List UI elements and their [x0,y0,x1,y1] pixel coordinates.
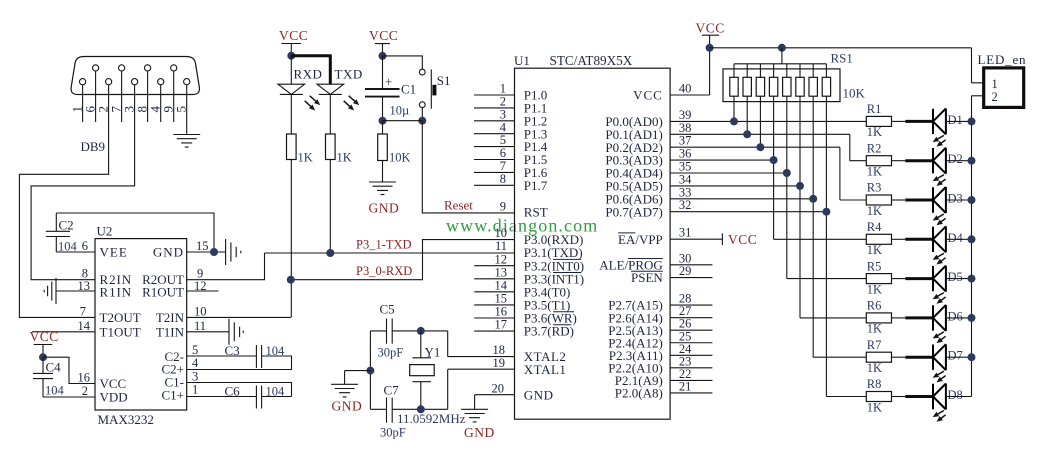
svg-text:11: 11 [194,319,206,333]
svg-text:VEE: VEE [100,245,128,260]
svg-text:P1.7: P1.7 [524,178,548,193]
node bus D1 [968,117,976,125]
wire P0.2 pin 37 to R3 [670,147,866,200]
node TXD LED junction [326,249,334,257]
svg-text:GND: GND [369,201,400,216]
wire VCC to U2 pin 16 [43,357,95,383]
svg-text:1K: 1K [867,282,882,296]
capacitor C6 [225,383,286,408]
svg-text:9: 9 [500,200,506,214]
resistor R4 1K [866,220,905,257]
ground at DB9 pin 5 [173,135,200,148]
LED D3 [905,187,971,225]
wire to crystal ground [345,371,371,385]
LED D6 [905,305,971,343]
svg-text:104: 104 [45,384,65,398]
RS1 element 5 [783,64,791,279]
wire DB9 pin2 to U2 T2OUT [19,85,108,318]
DB9 pin 5 [174,79,190,135]
wire P3_1-TXD line to U1 pin 11 [265,252,515,254]
wire P0.0 pin 39 to R1 [670,120,866,122]
svg-text:39: 39 [679,108,692,122]
svg-text:T2OUT: T2OUT [100,310,141,325]
node bus D5 [968,275,976,283]
DB9 pin 8 [134,65,150,122]
node C1/S1 junction left [379,117,387,125]
DB9 pin 7 [108,65,124,122]
U2 pin numbers [78,239,91,398]
svg-text:8: 8 [500,172,506,186]
svg-text:40: 40 [679,82,692,96]
U1 pins 28-21 stubs [670,305,712,393]
connector LED_en [972,52,1027,107]
capacitor C5 [378,302,404,360]
U1 left pin names [524,88,584,403]
svg-text:1: 1 [992,77,998,91]
svg-text:6: 6 [82,239,88,253]
U1 pins 18-19 stubs [448,357,515,370]
svg-text:1K: 1K [867,243,882,257]
svg-text:XTAL1: XTAL1 [524,362,567,377]
svg-text:10µ: 10µ [390,104,410,118]
wire P0.5 pin 34 [670,185,800,187]
resistor 10K [378,121,411,165]
svg-text:C1: C1 [401,82,416,97]
svg-text:1: 1 [192,383,198,397]
node U2 pin15 junction [210,248,218,256]
svg-text:C4: C4 [46,360,62,375]
svg-text:T2IN: T2IN [156,310,185,325]
svg-text:GND: GND [153,245,184,260]
svg-text:MAX3232: MAX3232 [98,412,154,427]
node crystal gnd tap [366,367,374,375]
DB9 pin 1 [69,79,85,122]
wire U2 C2- pin 5 through C3 [187,355,257,357]
U1 pins 1-8 stubs [474,95,515,185]
wire U2 GND pin 15 stub [187,251,226,253]
svg-text:33: 33 [679,185,692,199]
svg-text:1K: 1K [298,151,313,165]
power VCC left of U2 [30,329,59,357]
wire U2 R1IN pin 13 [56,290,95,292]
svg-text:20: 20 [492,381,505,395]
svg-text:DB9: DB9 [81,139,106,154]
RS1 element 2 [743,64,751,135]
power VCC above C1/S1 [369,28,398,56]
svg-text:D6: D6 [948,309,963,323]
overline marks on pin names [553,233,663,325]
svg-text:30pF: 30pF [380,426,406,440]
node bus D4 [968,235,976,243]
svg-text:C1+: C1+ [161,388,184,403]
wire P0.6 pin 33 [670,198,813,200]
svg-text:21: 21 [679,380,692,394]
wire U2 R2OUT pin 9 up to TXD line [187,253,265,280]
node XTAL1/Y1 junction [417,405,425,413]
LED D1 [905,108,971,146]
RS1 element 7 [809,64,817,357]
svg-text:35: 35 [679,160,692,174]
svg-text:10K: 10K [843,86,866,101]
resistor R2 1K [866,141,905,178]
ground at crystal [331,384,362,413]
svg-text:29: 29 [679,264,692,278]
wire R7 feed [813,356,866,358]
LED D4 [905,226,971,264]
svg-text:38: 38 [679,121,692,135]
LED D8 [905,384,971,422]
svg-text:104: 104 [58,240,78,254]
LED D5 [905,266,971,304]
node bus D3 [968,196,976,204]
svg-text:RS1: RS1 [831,51,853,66]
svg-text:1K: 1K [867,165,882,179]
wire LED cathode bus [971,96,973,397]
resistor R6 1K [866,299,905,336]
svg-text:D3: D3 [948,192,963,206]
ground below 10K [369,161,400,216]
svg-text:11.0592MHz: 11.0592MHz [397,411,466,426]
svg-text:Reset: Reset [444,198,473,213]
svg-text:U2: U2 [97,224,113,239]
wire P0.1 pin 38 to R2 [670,134,866,160]
wire XTAL2 net [370,331,447,357]
ground sideways at U2 R1IN [44,278,56,304]
U1 pin 20 stub [475,395,515,410]
wire P0.3 pin 36 [670,159,774,161]
svg-text:C5: C5 [380,302,395,317]
wire RXD LED to R [290,94,292,134]
RS1 element 4 [769,64,777,240]
wire C3 to U2 C2+ pin 4 [187,356,292,370]
svg-text:S1: S1 [437,73,451,88]
resistor R8 1K [866,377,905,414]
svg-text:3: 3 [500,107,506,121]
svg-text:32: 32 [679,198,692,212]
svg-text:GND: GND [524,387,554,402]
switch S1 [419,69,450,109]
wire VCC to RXD LED [290,56,292,84]
svg-text:14: 14 [78,319,91,333]
U2 left pin texts [100,245,141,405]
node VCC split RXD/TXD [287,52,295,60]
svg-text:1K: 1K [337,151,352,165]
U1 pins 12-17 stubs [474,266,514,331]
capacitor C3 [225,343,286,368]
wire crystal left leg [369,331,371,409]
svg-text:5: 5 [500,133,506,147]
RS1 element 3 [756,64,764,147]
wire RXD chain down to RXD net [290,160,292,318]
wire U2 C1+ pin 1 through C6 [187,396,292,398]
svg-text:D5: D5 [948,270,963,284]
svg-text:36: 36 [679,147,692,161]
svg-text:GND: GND [332,399,363,414]
svg-text:2: 2 [992,90,998,104]
U1 left pin numbers [492,82,508,396]
capacitor C7 [380,383,406,440]
svg-text:P2.0(A8): P2.0(A8) [615,386,663,401]
wire XTAL1 net [370,369,447,409]
wire RS1 common [734,48,826,64]
svg-text:VCC: VCC [279,28,308,43]
wire VCC to TXD branch [291,54,330,84]
svg-text:R3: R3 [867,181,882,195]
node C1/S1 junction right [418,117,426,125]
svg-text:12: 12 [495,252,508,266]
svg-text:13: 13 [495,265,508,279]
U1 pins 30 29 stubs [670,265,712,278]
svg-text:R1: R1 [867,102,882,116]
svg-text:VCC: VCC [696,21,725,36]
node bus taps [730,117,830,215]
svg-text:1K: 1K [867,322,882,336]
svg-text:VCC: VCC [728,232,757,247]
svg-text:D4: D4 [948,231,964,245]
RS1 element 8 [822,64,830,397]
resistor 1K (RXD) [287,134,313,165]
svg-text:GND: GND [464,425,495,440]
node VCC split C1/S1 [379,52,387,60]
svg-text:P3_0-RXD: P3_0-RXD [356,264,412,278]
svg-text:P0.7(AD7): P0.7(AD7) [605,204,662,219]
power VCC at pin 31 [722,232,757,247]
svg-text:7: 7 [500,159,506,173]
svg-text:R6: R6 [867,299,882,313]
svg-text:31: 31 [679,226,692,240]
svg-text:4: 4 [192,356,199,370]
wire U2 R1OUT pin 12 stub [187,290,219,292]
LED D7 [905,344,971,382]
svg-text:TXD: TXD [335,67,363,82]
U2 right pin texts [142,245,184,403]
wire C4 to U2 VDD pin 2 [43,396,95,398]
svg-text:R4: R4 [867,220,882,234]
svg-text:15: 15 [495,292,508,306]
RS1 element 1 [730,64,738,122]
wire VCC rail to LED_en [710,48,984,83]
RS1 element 6 [796,64,804,318]
node VCC/C4 junction [39,353,47,361]
svg-text:RXD: RXD [294,67,323,82]
svg-text:R8: R8 [867,377,882,391]
resistor R3 1K [866,181,905,218]
wire R4 feed [774,238,867,240]
svg-text:U1: U1 [514,53,530,68]
svg-text:2: 2 [500,95,506,109]
svg-text:+: + [385,74,392,89]
resistor network RS1 box [723,69,840,102]
svg-text:1K: 1K [867,204,882,218]
power VCC above RXD/TXD LEDs [279,28,308,56]
DB9 pin 9 [161,65,177,122]
wire S1 bottom to junction [421,108,423,121]
svg-text:15: 15 [196,239,209,253]
node bus D2 [968,157,976,165]
node RXD LED junction [287,276,295,284]
resistor R7 1K [866,338,905,375]
svg-text:5: 5 [192,343,198,357]
svg-text:37: 37 [679,134,692,148]
svg-text:14: 14 [495,278,508,292]
DB9 pin 3 [121,79,137,113]
capacitor C4 [33,357,65,397]
LED D2 [905,148,971,186]
svg-text:R1IN: R1IN [100,285,133,300]
svg-text:1: 1 [500,82,506,96]
svg-text:17: 17 [495,318,508,332]
wire U2 T1OUT pin 14 stub [32,331,95,333]
wire VCC to S1 [383,56,423,69]
svg-text:10: 10 [194,304,207,318]
svg-text:D2: D2 [948,152,963,166]
svg-text:RST: RST [524,205,548,220]
capacitor C2 [46,213,78,254]
svg-text:VDD: VDD [100,390,128,405]
svg-text:T1OUT: T1OUT [100,324,141,339]
op-amp U2 MAX3232 box [95,239,187,410]
wire C2 top loop to U2 GND pin 15 [56,213,214,252]
svg-text:4: 4 [500,120,507,134]
svg-text:R5: R5 [867,259,882,273]
ground sideways at U2 pin 15 [226,239,241,265]
connector DB9 shell [71,57,199,95]
node XTAL2/Y1 junction [417,327,425,335]
wire TXD chain down to TXD net [329,160,331,254]
wire R5 feed [787,278,867,280]
wire DB9 pin3 to U2 R2IN [31,85,135,280]
node VCC rail to RS1 [778,44,786,52]
svg-text:19: 19 [493,356,506,370]
LED RXD [278,84,320,110]
svg-text:R1OUT: R1OUT [142,285,184,300]
svg-text:1K: 1K [867,400,882,414]
ground sideways at U2 T1IN [229,319,243,345]
U1 right pin names [599,88,663,401]
wire junction bar [383,120,423,122]
resistor R5 1K [866,259,905,296]
resistor 1K (TXD) [326,134,352,165]
svg-text:34: 34 [679,172,692,186]
svg-text:5: 5 [174,106,189,113]
svg-text:STC/AT89X5X: STC/AT89X5X [550,53,633,68]
wire Reset net to U1 RST [422,121,514,213]
svg-text:16: 16 [78,371,91,385]
node bus D7 [968,353,976,361]
svg-text:6: 6 [500,146,506,160]
svg-text:10K: 10K [389,151,411,165]
svg-text:2: 2 [82,384,88,398]
LED TXD [317,84,359,110]
svg-text:LED_en: LED_en [978,52,1027,67]
DB9 pin 4 [148,79,164,122]
svg-text:16: 16 [495,305,508,319]
U1 right pin numbers [679,82,692,394]
wire U1 pin 40 to VCC [670,48,710,95]
node VCC rail at pin40 [706,44,714,52]
svg-text:VCC: VCC [30,329,59,344]
wire P3_0-RXD line to U1 pin 10 [291,240,515,280]
wire R8 feed [826,396,866,398]
ground at U1 pin 20 [461,409,495,440]
svg-text:D7: D7 [948,349,963,363]
svg-text:11: 11 [495,239,507,253]
wire U2 VEE pin 6 [56,251,95,253]
svg-text:1K: 1K [867,125,882,139]
svg-text:VCC: VCC [369,28,398,43]
svg-text:PSEN: PSEN [631,270,663,285]
svg-text:D1: D1 [948,113,963,127]
svg-text:R7: R7 [867,338,882,352]
svg-text:10: 10 [495,226,508,240]
svg-text:R2: R2 [867,141,882,155]
power VCC top right [696,21,725,48]
DB9 pin 6 [82,65,98,122]
wire U2 T1IN pin 11 stub [187,331,229,333]
svg-text:P3.7(RD): P3.7(RD) [524,324,574,339]
svg-text:3: 3 [192,370,198,384]
svg-text:30pF: 30pF [378,346,404,360]
capacitor C1 10u [365,56,416,121]
svg-text:7: 7 [80,304,86,318]
svg-text:EA/VPP: EA/VPP [618,232,663,247]
wire U2 C1- pin 3 [187,383,292,397]
wire U2 T2IN pin 10 to RXD chain [187,316,291,318]
node bus D6 [968,314,976,322]
crystal Y1 [410,331,441,409]
svg-text:D8: D8 [948,388,963,402]
MCU U1 box [515,68,671,419]
svg-text:C7: C7 [384,383,400,398]
DB9 pin 2 [95,79,111,113]
svg-text:C3: C3 [225,343,240,358]
svg-text:P3_1-TXD: P3_1-TXD [356,238,412,252]
resistor R1 1K [866,102,905,139]
wire P0.4 pin 35 [670,172,787,174]
svg-text:VCC: VCC [633,88,663,103]
svg-text:1K: 1K [867,361,882,375]
wire R6 feed [800,317,866,319]
svg-text:C2: C2 [59,218,74,233]
wire U1 pin 31 to VCC [670,238,722,240]
wire TXD LED to R [329,94,331,134]
svg-text:T1IN: T1IN [156,324,185,339]
wire P0.7 pin 32 [670,211,826,213]
